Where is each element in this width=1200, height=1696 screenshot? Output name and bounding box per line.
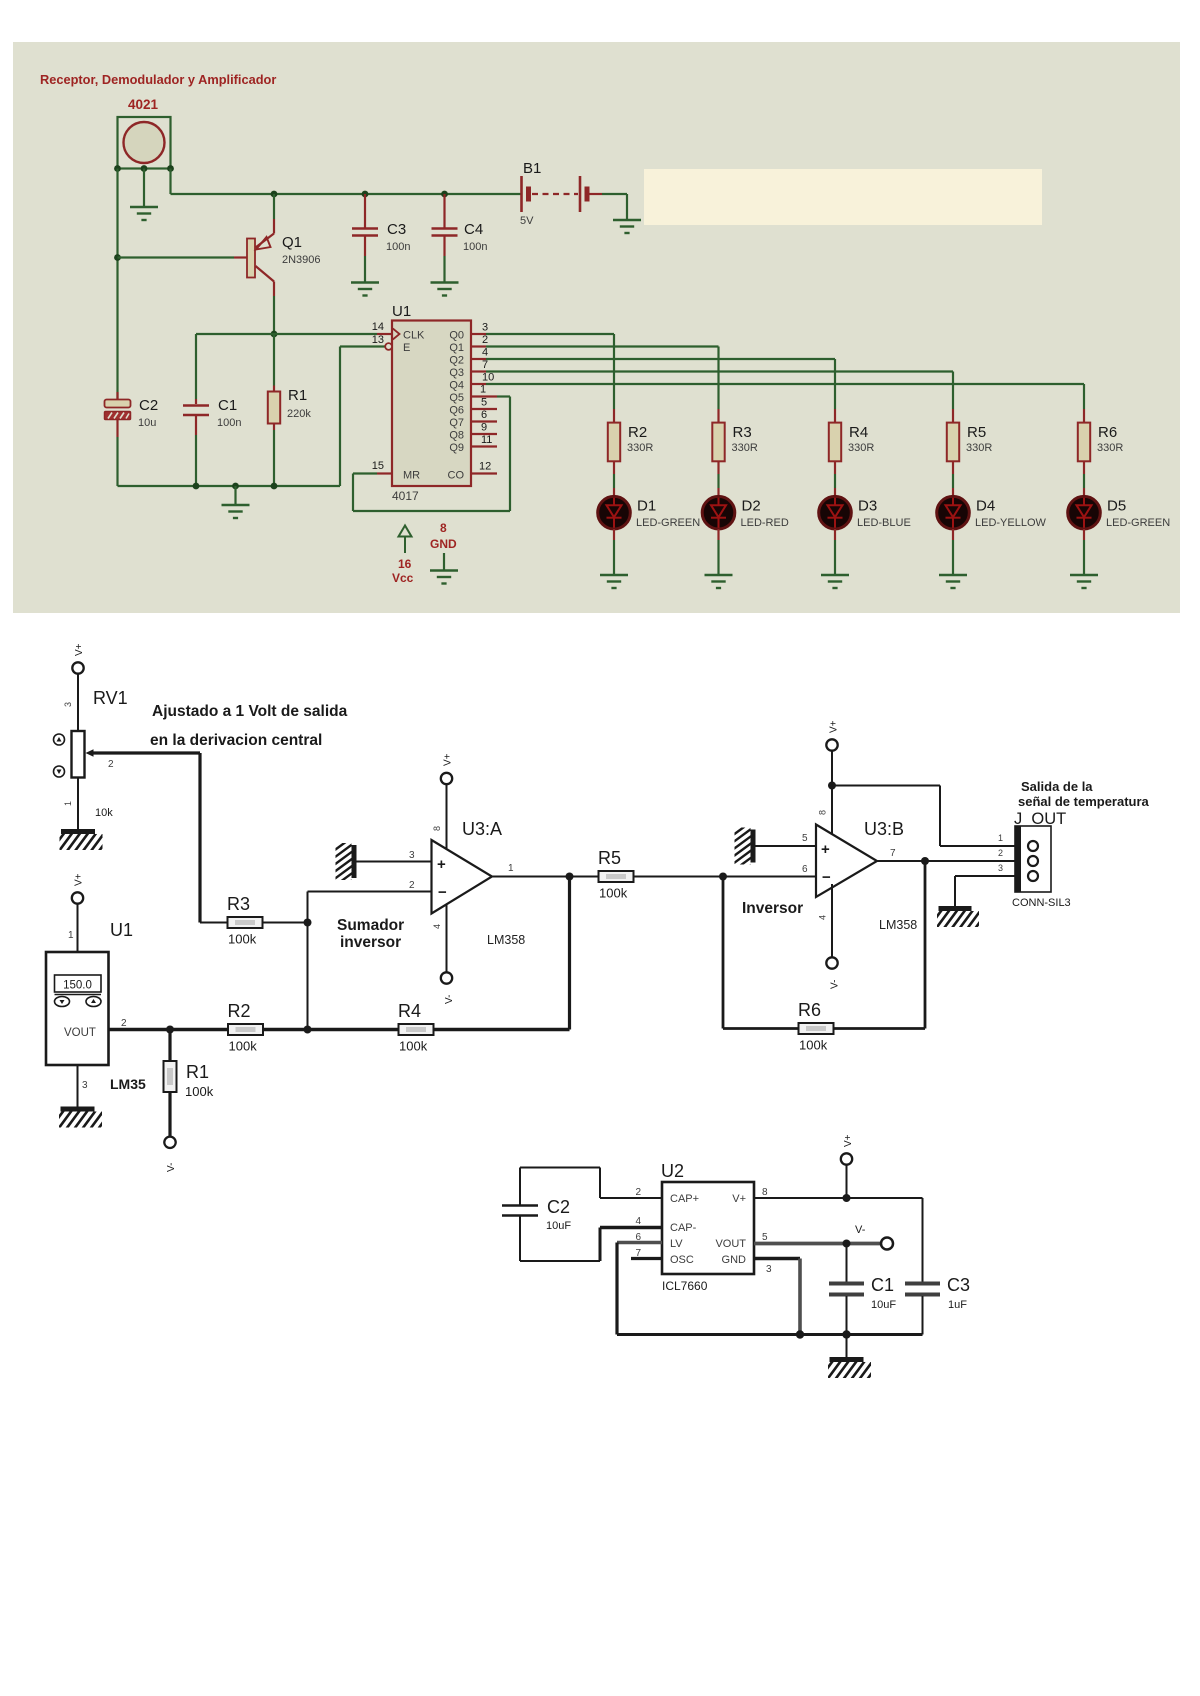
svg-text:C1: C1 [218,397,237,414]
U3:A V+ pin 8 [441,773,452,784]
svg-text:V-: V- [166,1163,177,1172]
schematic sheet background [13,42,1180,613]
node: collector junction [271,331,278,338]
wire: base wire to Q1 [118,256,235,258]
resistor R3 330R [717,409,719,423]
svg-text:16: 16 [398,557,412,571]
wire: inverting input U3:A [308,891,432,893]
wire: J_OUT pin 3 to ground [955,875,1015,877]
svg-text:en la derivacion central: en la derivacion central [150,732,322,749]
wire: receiver left pin down (C2 column) [116,169,118,400]
resistor R4 330R [834,409,836,423]
node VOUT/C1 [843,1240,851,1248]
svg-text:100k: 100k [228,932,257,947]
node: V+ branch to J_OUT pin1 [828,782,836,790]
node on rail at C4 [441,191,448,198]
svg-text:Q1: Q1 [449,342,464,354]
svg-text:MR: MR [403,470,420,482]
svg-text:10uF: 10uF [546,1220,571,1232]
svg-text:R5: R5 [967,424,986,441]
svg-text:220k: 220k [287,408,311,420]
svg-text:LED-YELLOW: LED-YELLOW [975,517,1047,529]
node: output/R6 [921,857,929,865]
U3:A V- pin 4 [446,904,448,972]
svg-text:6: 6 [481,409,487,421]
svg-text:Q8: Q8 [449,430,464,442]
ground (C3) [351,281,379,283]
svg-text:5: 5 [802,833,808,844]
svg-text:3: 3 [409,850,415,861]
power terminal V+ (RV1) [72,662,83,673]
svg-text:4: 4 [818,915,828,920]
svg-text:2N3906: 2N3906 [282,254,321,266]
svg-text:10k: 10k [95,807,113,819]
transistor Q1 2N3906 [247,239,255,278]
svg-text:100n: 100n [386,241,410,253]
wire: top V+ rail [171,193,522,195]
svg-text:Q9: Q9 [449,442,464,454]
wire: RV1 wiper (pin 2) [92,751,200,754]
capacitor C4 100n [443,194,445,228]
svg-text:1uF: 1uF [948,1299,967,1311]
power terminal V+ (U1 LM35) [72,892,83,903]
LED D1 LED-GREEN [598,496,631,529]
resistor R5 100k [599,871,634,882]
wire: U3:B output pin 7 [877,860,1015,862]
svg-text:4017: 4017 [392,489,419,503]
svg-text:2: 2 [998,848,1003,858]
svg-text:VOUT: VOUT [715,1238,746,1250]
node: R3 junction [304,919,312,927]
ground (D2) [705,574,733,576]
wire: bottom rail [617,1333,923,1336]
svg-text:2: 2 [482,334,488,346]
svg-text:2: 2 [108,759,114,770]
wire: rail stem to ground [846,1335,848,1358]
svg-text:C3: C3 [947,1275,970,1295]
wire: C2 bottom to CAP- (pin 4) [519,1216,521,1262]
node rail/C1 [842,1330,850,1338]
svg-text:R2: R2 [628,424,647,441]
svg-text:2: 2 [409,880,415,891]
svg-text:U3:B: U3:B [864,819,904,839]
svg-text:Vcc: Vcc [392,571,414,585]
wire: receiver mid pin to ground [143,169,145,207]
svg-text:VOUT: VOUT [64,1027,96,1039]
resistor R2 330R [613,409,615,423]
svg-text:R5: R5 [598,848,621,868]
svg-text:R2: R2 [228,1001,251,1021]
RV1 adjust buttons [54,734,65,745]
wire: U3:A output pin 1 [492,876,598,878]
svg-text:LED-BLUE: LED-BLUE [857,517,911,529]
svg-text:10: 10 [482,372,494,384]
wire: VOUT (pin 5) to V- terminal [754,1242,881,1246]
svg-text:150.0: 150.0 [63,980,92,992]
svg-text:U1: U1 [392,303,411,320]
svg-text:CAP-: CAP- [670,1222,697,1234]
wire: + input U3:B [756,845,817,847]
svg-text:8: 8 [818,810,828,815]
U1 Q5 pin 1 stub [471,395,497,397]
svg-text:RV1: RV1 [93,688,128,708]
svg-text:U1: U1 [110,920,133,940]
masked-out label area [644,169,1042,225]
ground (D4) [939,574,967,576]
wire: vertical summing node [307,892,309,1030]
wire: collector junction to C1 [196,333,274,335]
wire: U1 Q1 (pin) to R3 column [471,345,486,347]
svg-text:100k: 100k [185,1084,214,1099]
MR feedback loop wire from Q5 [353,472,377,474]
svg-text:11: 11 [481,434,492,446]
svg-text:−: − [438,884,447,901]
wire: rail stem to ground [234,486,236,504]
svg-text:1: 1 [998,833,1003,843]
svg-text:330R: 330R [732,442,758,454]
svg-text:3: 3 [63,702,73,707]
resistor R6 100k [723,1027,798,1030]
wire: LV (pin 6) to rail [617,1241,662,1245]
node: R5/R6 junction [719,873,727,881]
svg-text:V+: V+ [443,753,454,766]
svg-text:Receptor, Demodulador y Amplif: Receptor, Demodulador y Amplificador [40,72,276,87]
svg-text:330R: 330R [1097,442,1123,454]
svg-text:5: 5 [762,1232,768,1243]
Vcc power pin (16) [399,526,412,554]
LED D4 LED-YELLOW [937,496,970,529]
wire: collector junction to U1 CLK (pin 14) [274,333,377,335]
wire: LM35 pin 3 to ground [77,1065,79,1107]
svg-text:R1: R1 [288,387,307,404]
svg-text:1: 1 [63,801,73,806]
svg-text:V+: V+ [829,720,840,733]
wire: U1 Q3 (pin) to R5 column [471,370,486,372]
ground (C4) [431,281,459,283]
wire: receiver right pin to V+ rail [169,169,171,195]
wire: D4 cathode to ground [952,529,954,540]
ground (receiver) [130,206,158,208]
node: output/feedback [566,873,574,881]
svg-text:Inversor: Inversor [742,900,803,917]
resistor R1 220k [273,334,275,386]
svg-text:inversor: inversor [340,934,401,951]
U3:B V+ pin 8 [826,739,837,750]
svg-text:8: 8 [432,826,442,831]
svg-text:R6: R6 [798,1000,821,1020]
svg-text:CLK: CLK [403,330,425,342]
svg-text:B1: B1 [523,160,541,177]
svg-text:Ajustado a 1 Volt de salida: Ajustado a 1 Volt de salida [152,703,348,720]
svg-text:LED-GREEN: LED-GREEN [1106,517,1170,529]
svg-text:Q6: Q6 [449,405,464,417]
svg-text:3: 3 [766,1264,772,1275]
wire: R5 to U3:B inverting input [634,876,816,878]
node V+ stem [843,1194,851,1202]
svg-text:100n: 100n [463,241,487,253]
svg-text:100k: 100k [229,1039,258,1054]
svg-text:5: 5 [481,397,487,409]
svg-text:V-: V- [444,995,455,1004]
capacitor C3 1uF [922,1198,924,1282]
svg-text:D2: D2 [742,498,761,515]
U1 clock chevron [393,329,400,340]
svg-text:14: 14 [372,321,384,333]
U1 output stubs Q6-Q9, CO [471,408,497,410]
svg-text:100k: 100k [399,1039,428,1054]
ground (battery) [613,219,641,221]
svg-text:1: 1 [68,930,74,941]
wire: V+ to RV1 [77,674,79,731]
svg-text:5V: 5V [520,215,534,227]
wire: D2 cathode to ground [717,529,719,540]
svg-text:7: 7 [890,848,896,859]
LED D5 LED-GREEN [1068,496,1101,529]
svg-text:7: 7 [482,359,488,371]
ground (D3) [821,574,849,576]
svg-text:R6: R6 [1098,424,1117,441]
ground (bottom rail) [222,504,250,506]
svg-text:D3: D3 [858,498,877,515]
svg-text:C4: C4 [464,221,483,238]
svg-text:Salida de la: Salida de la [1021,779,1093,794]
power terminal V- (below R1) [164,1137,175,1148]
svg-text:+: + [821,841,830,858]
svg-text:R4: R4 [398,1001,421,1021]
svg-text:R1: R1 [186,1062,209,1082]
node C1/rail [193,483,200,490]
node rail/GND wire [796,1330,804,1338]
svg-text:R4: R4 [849,424,868,441]
svg-text:D4: D4 [976,498,995,515]
capacitor C2 10uF [502,1204,538,1207]
svg-text:330R: 330R [966,442,992,454]
svg-text:15: 15 [372,460,384,472]
power terminal V- output [881,1238,893,1250]
svg-text:9: 9 [481,422,487,434]
node: summing junction on rail [304,1026,312,1034]
svg-text:CO: CO [448,470,465,482]
svg-text:4: 4 [635,1216,641,1227]
svg-text:100k: 100k [799,1038,828,1053]
power terminal V+ (U2) [846,1165,848,1198]
svg-text:−: − [822,869,831,886]
wire: Q1 emitter to rail [273,219,275,234]
ground (D5) [1070,574,1098,576]
OSC (pin 7) stub [631,1257,662,1260]
resistor R4 100k [399,1024,434,1035]
svg-text:2: 2 [635,1187,641,1198]
wire: D3 cathode to ground [834,529,836,540]
svg-text:Q7: Q7 [449,417,464,429]
svg-text:E: E [403,342,410,354]
svg-text:señal de temperatura: señal de temperatura [1018,794,1150,809]
svg-text:10u: 10u [138,417,156,429]
svg-text:ICL7660: ICL7660 [662,1279,708,1293]
resistor R5 330R [952,409,954,423]
svg-text:Q0: Q0 [449,330,464,342]
svg-text:C2: C2 [139,397,158,414]
wire: U1 Q2 (pin) to R4 column [471,358,486,360]
svg-text:C2: C2 [547,1197,570,1217]
svg-text:CAP+: CAP+ [670,1193,699,1205]
ground (D1) [600,574,628,576]
svg-text:LED-RED: LED-RED [741,517,789,529]
svg-text:12: 12 [479,461,491,473]
svg-text:V+: V+ [74,643,85,656]
wire: + input U3:A [357,861,432,863]
svg-text:LM358: LM358 [879,918,917,932]
wire: U1 Q4 (pin) to R6 column [471,383,486,385]
wire: V+ to LM35 pin 1 [77,904,79,952]
svg-text:6: 6 [802,864,808,875]
node: receiver pins [114,165,121,172]
svg-text:Q5: Q5 [449,392,464,404]
svg-text:C1: C1 [871,1275,894,1295]
svg-text:V-: V- [855,1224,866,1236]
wire: C2 top to CAP+ (pin 2) [519,1168,521,1206]
LED D2 LED-RED [702,496,735,529]
svg-text:Sumador: Sumador [337,917,404,934]
svg-text:4: 4 [482,347,488,359]
U1 MR pin 15 wire [377,472,392,474]
svg-text:330R: 330R [848,442,874,454]
op-amp U3:A LM358 [432,840,493,914]
wire: battery minus to ground [602,193,627,195]
svg-text:D1: D1 [637,498,656,515]
node R1 [166,1026,174,1034]
svg-text:3: 3 [82,1080,88,1091]
svg-text:4021: 4021 [128,97,159,112]
svg-text:U2: U2 [661,1161,684,1181]
resistor R3 100k [200,922,228,924]
wire: R6 branch vertical [722,877,725,1029]
svg-text:1: 1 [480,384,486,396]
node: base junction [114,254,121,261]
svg-text:GND: GND [722,1254,747,1266]
svg-text:LM358: LM358 [487,933,525,947]
wire: D1 cathode to ground [613,529,615,540]
svg-text:100k: 100k [599,886,628,901]
U3:B V- pin 4 [831,884,833,957]
svg-text:V+: V+ [843,1134,854,1147]
wire: R2 to summing node [263,1028,399,1031]
svg-text:Q1: Q1 [282,234,302,251]
svg-text:13: 13 [372,334,384,346]
wire: D5 cathode to ground [1083,529,1085,540]
wire: GND (pin 3) down [754,1257,800,1260]
svg-text:4: 4 [432,924,442,929]
svg-text:3: 3 [482,322,488,334]
svg-text:3: 3 [998,863,1003,873]
svg-text:GND: GND [430,537,457,551]
svg-text:Q2: Q2 [449,355,464,367]
svg-text:CONN-SIL3: CONN-SIL3 [1012,897,1071,909]
U1 E bubble [385,343,392,350]
node R1/rail [271,483,278,490]
resistor R6 330R [1083,409,1085,423]
wire: bottom common rail [118,485,341,487]
svg-text:+: + [437,856,446,873]
svg-text:U3:A: U3:A [462,819,502,839]
svg-text:1: 1 [508,863,514,874]
svg-text:D5: D5 [1107,498,1126,515]
wire: V+ (pin 8) row [754,1197,923,1199]
node gnd/rail [232,483,239,490]
resistor R1 100k [168,1030,171,1062]
wire: U1 Q0 (pin) to R2 column [471,333,486,335]
svg-text:8: 8 [440,521,447,535]
capacitor C1 100n [195,334,197,399]
wire: E pin (13) return to rail [339,347,341,487]
svg-text:V-: V- [830,980,841,989]
LED D3 LED-BLUE [819,496,852,529]
svg-text:2: 2 [121,1018,127,1029]
svg-text:8: 8 [762,1187,768,1198]
svg-text:Q4: Q4 [449,380,464,392]
svg-text:100n: 100n [217,417,241,429]
node on rail at Q1 emitter [271,191,278,198]
node on rail at C3 [362,191,369,198]
wire: RV1 bottom to ground [77,778,79,830]
svg-text:OSC: OSC [670,1254,694,1266]
op-amp U3:B LM358 [816,825,877,898]
svg-text:C3: C3 [387,221,406,238]
svg-text:LV: LV [670,1238,683,1250]
svg-text:R3: R3 [227,894,250,914]
svg-text:10uF: 10uF [871,1299,896,1311]
svg-text:LM35: LM35 [110,1076,146,1092]
capacitor C1 10uF [846,1244,848,1283]
wire: Q1 collector down [273,282,275,297]
svg-text:V+: V+ [732,1193,746,1205]
svg-text:V+: V+ [74,873,85,886]
capacitor C2 10u (electrolytic) [116,392,118,400]
capacitor C3 100n [364,194,366,228]
svg-text:R3: R3 [733,424,752,441]
svg-text:LED-GREEN: LED-GREEN [636,517,700,529]
resistor R2 100k [228,1024,263,1035]
svg-text:330R: 330R [627,442,653,454]
svg-text:Q3: Q3 [449,367,464,379]
wire: feedback vertical [568,877,571,1030]
